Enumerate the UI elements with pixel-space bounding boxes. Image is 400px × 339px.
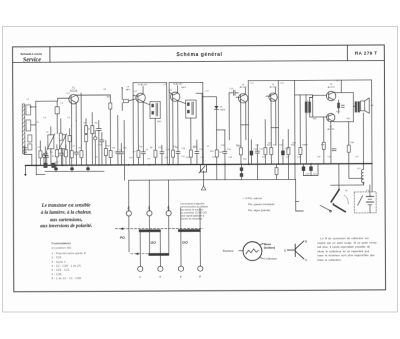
resistor R2 [109, 103, 112, 109]
svg-text:OA70: OA70 [220, 108, 226, 111]
wire switch feed [331, 184, 364, 186]
svg-text:Le transistor est sensible: Le transistor est sensible [41, 204, 92, 209]
riser T5 top [277, 80, 279, 164]
capacitor C8 [59, 148, 63, 166]
svg-text:Collecteur: Collecteur [264, 257, 278, 261]
capacitor C15 [160, 145, 164, 165]
transistor T7 [327, 113, 335, 121]
wire switch drop [338, 164, 340, 190]
wire L1 to tuning [31, 106, 36, 108]
left connector plug [24, 146, 32, 165]
capacitor C23 [255, 145, 259, 180]
header divider left (Service box) [49, 47, 51, 62]
svg-text:Schéma général: Schéma général [176, 52, 222, 58]
resistor R14 on T3 emitter [171, 150, 174, 157]
node vertical antenna feed [35, 101, 37, 175]
wafer dashed line PO [115, 227, 202, 229]
wire T1 emitter stack [80, 93, 82, 145]
svg-text:Pot. graves (musique): Pot. graves (musique) [248, 202, 274, 206]
transistor T1 [69, 94, 79, 125]
svg-text:l'entrée du récepteur.: l'entrée du récepteur. [180, 217, 203, 220]
audio top bus [248, 79, 371, 82]
electrolytic C27 [302, 164, 305, 176]
bus left hook terminal [24, 165, 26, 173]
svg-text:AC178: AC178 [327, 128, 334, 131]
voltage marks [66, 80, 341, 94]
transistor T3 [169, 86, 180, 165]
svg-text:RA 279 T: RA 279 T [355, 50, 378, 55]
resistor R12 on T2 emitter [137, 150, 140, 157]
terminal 8 [198, 266, 203, 271]
battery cells [366, 192, 373, 213]
electrolytic C29 [54, 165, 57, 171]
lower right corner net [296, 179, 304, 211]
diode G1 [214, 106, 218, 180]
riser to top bus right [340, 80, 342, 92]
transistor T6 [326, 91, 336, 100]
transistor T5 [266, 88, 278, 165]
svg-text:B: B [305, 239, 307, 243]
capacitor C6 [43, 147, 47, 166]
svg-text:AC125: AC125 [240, 86, 247, 89]
driver transformer TR1 [305, 95, 311, 164]
explanatory paragraph [317, 236, 377, 262]
column wires [128, 216, 130, 252]
svg-text:AC178: AC178 [328, 86, 335, 89]
svg-text:Schaub-Lorenz: Schaub-Lorenz [20, 52, 42, 56]
capacitor C35 [45, 151, 49, 166]
wire detector branch [202, 97, 216, 106]
svg-text:T3 AC107: T3 AC107 [173, 83, 184, 86]
tone pot P3 [275, 164, 278, 179]
svg-text:AC125: AC125 [270, 86, 277, 89]
electrolytic C30 [70, 165, 73, 171]
resistor R6 [55, 145, 58, 166]
link T5 bias [271, 127, 278, 129]
svg-text:— A Pot. volume: — A Pot. volume [242, 196, 262, 200]
wire right section top [295, 94, 313, 96]
supply bus second [45, 170, 104, 172]
antenna coil L2 [26, 120, 31, 131]
transistor T2 [133, 86, 146, 165]
electrolytic C22 [250, 140, 254, 165]
capacitor C17 [176, 101, 180, 165]
capacitor C36 [119, 143, 123, 165]
net vertical x265 [264, 120, 267, 165]
output transformer TR2 [353, 101, 360, 112]
wire speaker down [362, 113, 364, 164]
AGC line [123, 120, 125, 180]
svg-text:Service: Service [23, 57, 41, 63]
arrow wafer2 [135, 252, 139, 255]
svg-text:Commutateur: Commutateur [51, 241, 71, 245]
coil bar A1 [139, 229, 161, 232]
coil bar B1 [178, 229, 201, 232]
svg-text:aux inversions de polarité.: aux inversions de polarité. [40, 224, 92, 229]
vertical net x300 [299, 95, 301, 164]
resistor R13 [154, 150, 157, 157]
wire T7 base feed [310, 116, 327, 118]
battery box dashed [354, 192, 376, 213]
resistor R4 [91, 113, 94, 166]
switch arc [344, 195, 348, 204]
extra ref specks [37, 130, 359, 164]
vertical right net x372 [371, 80, 374, 192]
transistor symbol K [287, 241, 304, 259]
tuning gang CV2 [59, 134, 67, 166]
tone network P2 [240, 164, 243, 179]
header band bottom rule [13, 60, 385, 62]
resistor R26 [85, 135, 88, 142]
electrolytic C28 [309, 164, 312, 176]
transistor pictorial circle [239, 242, 264, 261]
IF transformer MF3 glyph [178, 100, 197, 165]
resistor R28 [104, 141, 107, 166]
leads above terminals [128, 206, 130, 210]
capacitor C5 [96, 121, 101, 166]
capacitor C20 [223, 130, 227, 180]
wire lower right link [303, 164, 318, 176]
tuning gang CV1 [47, 127, 55, 166]
capacitor C11 [116, 115, 120, 165]
net vertical x111 [109, 150, 112, 157]
ferrite antenna rod [22, 104, 25, 154]
resistor R16 detector load [215, 150, 218, 157]
IF stage box 1 [133, 82, 167, 164]
wire T6 base feed [310, 95, 327, 97]
IF stage box 2 [169, 82, 203, 164]
chassis ground triangle [201, 186, 206, 190]
capacitor C21 T4 base [229, 90, 239, 140]
speaker HP [360, 98, 369, 113]
legend commutateur [51, 241, 86, 280]
wire MF3 to detector [196, 93, 202, 164]
tick on corner net [296, 201, 299, 203]
svg-text:Pot. aigus (parole): Pot. aigus (parole) [248, 208, 270, 212]
border frame [13, 45, 386, 292]
link detector to AF [217, 129, 225, 131]
resistor R20 T5 emitter [270, 148, 273, 155]
bias network cluster [336, 100, 344, 113]
svg-text:aux surtensions,: aux surtensions, [50, 218, 83, 223]
wire to lower terminal [320, 205, 331, 211]
resistor R21 [287, 130, 290, 180]
tiny reference labels [27, 88, 375, 194]
trimmer CT1 [42, 154, 45, 165]
capacitor C32 [332, 149, 336, 151]
terminal 5 [166, 211, 171, 216]
switch pivot dots [338, 188, 340, 190]
resistor R15 [189, 150, 192, 157]
svg-text:AC106: AC106 [70, 90, 78, 93]
terminal 2 [138, 266, 143, 271]
switch S1 lever [331, 190, 345, 212]
svg-text:GO: GO [182, 241, 188, 245]
wire T1 collector to MF1 [78, 95, 111, 165]
svg-text:T2 AC107: T2 AC107 [138, 83, 149, 86]
resistor R8 [64, 145, 67, 166]
antenna sub-coil L2a [28, 135, 32, 142]
resistor R22 [299, 147, 302, 154]
electrolytic C25 [281, 140, 285, 165]
battery arrow [358, 196, 363, 206]
capacitor C33 [94, 131, 97, 166]
padder C3 [68, 129, 71, 166]
bus junction dots [35, 163, 364, 166]
resistor R23 [322, 142, 325, 149]
wire L2 to gang [31, 124, 36, 126]
electrolytic C31 [86, 165, 89, 171]
oscillator coil L3 [55, 101, 59, 134]
svg-text:GO: GO [150, 241, 156, 245]
IF transformer MF2 glyph [143, 102, 160, 165]
resistor R3 [85, 119, 88, 166]
wire battery top [369, 185, 371, 192]
svg-text:base et collecteur.: base et collecteur. [317, 258, 341, 262]
resistor R10 [80, 146, 83, 166]
note bold text block [40, 204, 92, 230]
resistor R5 [39, 141, 42, 166]
header divider right (RA box) [346, 45, 348, 60]
wire antenna to T1 base [36, 98, 69, 101]
svg-text:PO: PO [120, 236, 125, 240]
trimmer block CT4 [43, 163, 47, 168]
coil bar A2 [149, 253, 170, 256]
svg-text:8 - 1 de S1 - C1 - C38.: 8 - 1 de S1 - C1 - C38. [52, 276, 82, 280]
capacitor C19 [195, 140, 199, 165]
ground bus main [25, 164, 372, 166]
resistor R24 [347, 122, 363, 179]
wafer dashed line 2 [131, 253, 151, 255]
riser T4 to top bus [247, 81, 249, 165]
terminal 6 [178, 266, 183, 271]
wire base bias vertical [312, 95, 314, 117]
antenna coil L1 [26, 105, 31, 115]
svg-text:à la lumière, à la chaleur,: à la lumière, à la chaleur, [41, 210, 92, 215]
svg-text:(boîtier): (boîtier) [264, 246, 275, 250]
terminal 4 [158, 266, 163, 271]
resistor R25 [59, 119, 62, 141]
label Base boitier [264, 242, 275, 250]
choke coil L10 [361, 164, 364, 185]
terminal 1 [126, 211, 131, 216]
drops to band switch terminals [128, 180, 130, 211]
pot labels [242, 196, 274, 212]
collector loop wire [335, 93, 354, 122]
capacitor C34 [100, 133, 104, 166]
trimmer block CT5 [51, 163, 55, 168]
antenna sub-coil L2b [28, 144, 32, 150]
vertical net x295 [294, 80, 297, 179]
svg-text:2: 2 [138, 275, 141, 279]
capacitor C9 [74, 121, 78, 166]
volume potentiometer P1 [199, 165, 207, 186]
link T4 bias [241, 124, 249, 126]
MF1 secondary coil [121, 87, 136, 110]
resistor R9 on T1 emitter [70, 126, 73, 166]
terminal 3 [147, 211, 152, 216]
net drops from output box [323, 117, 325, 164]
svg-text:C: C [305, 258, 307, 262]
svg-text:en position MS: en position MS [51, 246, 71, 250]
PO arrow [120, 227, 124, 230]
transistor T4 [236, 88, 248, 165]
svg-text:E: E [284, 248, 286, 252]
lower bus [129, 178, 295, 181]
svg-text:Émetteur: Émetteur [222, 248, 235, 253]
resistor R18 [239, 148, 242, 155]
capacitor C13 [141, 102, 145, 165]
values note small block [180, 202, 209, 220]
